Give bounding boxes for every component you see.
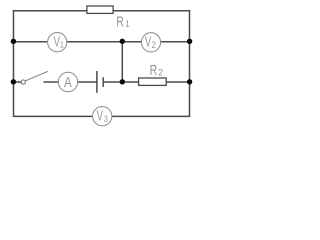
- junction dot: mid row3: [120, 79, 125, 84]
- svg-text:2: 2: [152, 39, 156, 50]
- wire: right vertical: [189, 10, 191, 116]
- svg-text:V: V: [97, 107, 104, 124]
- wire: row3 left dot to switch: [14, 81, 22, 83]
- svg-text:1: 1: [60, 39, 64, 50]
- junction dot: left row3: [11, 79, 16, 84]
- label R1: [116, 13, 130, 30]
- junction dot: left row2: [11, 39, 16, 44]
- voltmeter V2: [141, 33, 160, 52]
- wire: left vertical: [13, 10, 15, 116]
- wire: V1 to mid junction: [67, 41, 123, 43]
- wire: bottom horizontal right of V3: [112, 115, 191, 117]
- wire: top horizontal right of R1: [113, 10, 191, 12]
- svg-text:A: A: [64, 74, 72, 91]
- wire: switch to ammeter: [44, 81, 59, 83]
- junction dot: right row3: [187, 79, 192, 84]
- wire: bottom horizontal left of V3: [13, 115, 93, 117]
- switch pivot circle: [21, 80, 25, 84]
- wire: V2 to right dot: [160, 41, 189, 43]
- battery cell: short plate: [102, 77, 104, 87]
- wire: mid junction to V2: [122, 41, 141, 43]
- junction dot: mid row2: [120, 39, 125, 44]
- switch lever: [25, 71, 48, 81]
- svg-text:R: R: [116, 13, 124, 30]
- wire: R2 to right dot: [166, 81, 190, 83]
- wire: ammeter to battery: [78, 81, 97, 83]
- svg-text:2: 2: [158, 67, 163, 78]
- svg-text:R: R: [150, 61, 158, 78]
- wire: row2 left dot to V1: [14, 41, 49, 43]
- wire: middle vertical between junctions: [121, 42, 123, 82]
- wire: mid junction to R2: [122, 81, 139, 83]
- battery cell: long plate: [96, 71, 98, 93]
- svg-text:1: 1: [125, 18, 129, 29]
- wire: battery to mid junction: [103, 81, 122, 83]
- voltmeter V1: [48, 33, 67, 52]
- resistor R1: [87, 6, 113, 13]
- svg-text:V: V: [145, 33, 152, 50]
- resistor R2: [139, 78, 167, 85]
- junction dot: right row2: [187, 39, 192, 44]
- wire: top horizontal left of R1: [13, 10, 88, 12]
- ammeter A: [58, 72, 77, 91]
- voltmeter V3: [93, 107, 112, 126]
- label R2: [150, 61, 163, 78]
- svg-text:3: 3: [104, 113, 108, 124]
